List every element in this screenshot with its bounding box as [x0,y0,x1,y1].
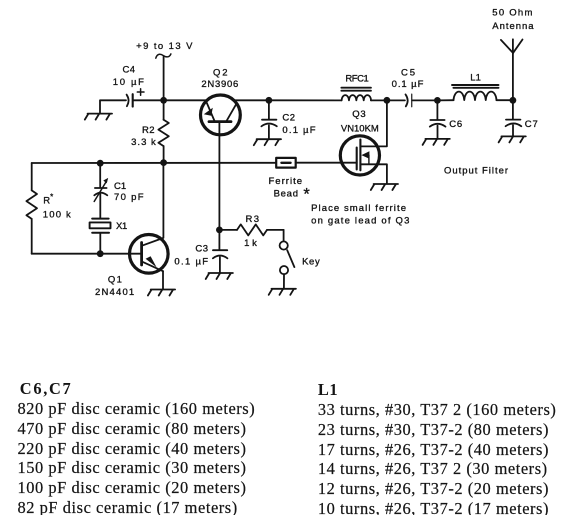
transistor Q1 [130,163,169,289]
node Q3 drain junction [384,97,391,104]
C1 arrow head [103,178,108,184]
resistor R3 [219,224,283,235]
ground (C4) [85,114,112,120]
crystal X1 [90,219,111,254]
svg-text:0.1 µF: 0.1 µF [174,256,208,267]
svg-text:Bead: Bead [274,189,298,200]
svg-text:Q1: Q1 [108,275,122,286]
svg-text:10 µF: 10 µF [113,77,144,88]
wire left drop to R* [31,163,33,190]
svg-text:820 pF disc ceramic (160 meter: 820 pF disc ceramic (160 meters) [18,399,256,418]
node C6 junction [434,97,441,104]
ground (Q3 source) [371,184,398,190]
svg-text:C6,C7: C6,C7 [20,379,72,398]
wire C5 to C6 node [412,99,437,101]
capacitor C6 [430,100,446,138]
svg-text:0.1 µF: 0.1 µF [392,79,424,90]
svg-text:100 k: 100 k [43,210,71,221]
svg-text:10 turns, #26, T37-2 (17 meter: 10 turns, #26, T37-2 (17 meters) [318,499,549,515]
svg-text:C2: C2 [282,113,295,124]
wire RFC1 to C5 [371,99,405,101]
svg-text:+9 to 13 V: +9 to 13 V [136,41,193,52]
svg-text:C4: C4 [123,65,136,76]
svg-text:L1: L1 [318,380,338,399]
node keying junction [216,227,223,234]
ground (C2) [254,139,281,145]
svg-text:2N3906: 2N3906 [201,79,238,90]
antenna [501,39,523,100]
ground (Q1 emitter) [148,290,175,296]
svg-text:2N4401: 2N4401 [95,287,134,298]
svg-text:C6: C6 [449,119,462,130]
transistor Q3 [340,100,387,183]
svg-text:14 turns, #26, T37 2 (30 meter: 14 turns, #26, T37 2 (30 meters) [318,459,548,478]
svg-text:C3: C3 [195,244,208,255]
svg-text:C1: C1 [114,181,126,192]
svg-text:VN10KM: VN10KM [341,124,379,135]
ground (key) [269,289,296,295]
svg-text:*: * [303,186,310,204]
svg-text:L1: L1 [470,73,481,84]
capacitor C1 (variable) [94,163,107,218]
wire C4 ground lead [100,100,126,113]
svg-text:Q2: Q2 [213,68,228,79]
capacitor C3 [213,230,228,273]
svg-text:33 turns, #30, T37 2 (160 mete: 33 turns, #30, T37 2 (160 meters) [318,400,557,419]
svg-text:R2: R2 [142,125,155,136]
wire bottom bus to Q1 base [32,253,142,255]
svg-text:Ferrite: Ferrite [269,176,303,187]
inductor RFC1 [341,88,371,101]
ferrite bead [276,158,296,168]
wire rail to Q2 [164,99,207,101]
wire supply vertical [163,57,165,101]
svg-text:R*: R* [43,192,53,206]
svg-text:17 turns, #26, T37-2 (40 meter: 17 turns, #26, T37-2 (40 meters) [318,440,549,459]
ground (C7) [499,136,526,142]
capacitor C7 [506,100,522,136]
svg-text:C7: C7 [525,119,538,130]
svg-text:Antenna: Antenna [492,21,534,32]
node X1 bottom junction [97,250,104,257]
svg-text:on gate lead of Q3: on gate lead of Q3 [311,216,409,227]
wire C6 node to L1 [437,99,453,101]
wire C2 node to RFC1 [269,99,342,101]
svg-text:100 pF disc ceramic (20 meters: 100 pF disc ceramic (20 meters) [18,478,247,497]
ground (C6) [423,139,450,145]
wire L1 to antenna node [497,99,513,101]
svg-text:Output Filter: Output Filter [444,166,508,177]
svg-text:23 turns, #30, T37-2 (80 meter: 23 turns, #30, T37-2 (80 meters) [318,420,549,439]
wire gate bus y=163 [32,162,277,164]
key switch [280,230,295,289]
svg-text:RFC1: RFC1 [345,74,368,85]
node C1 top junction [97,160,104,167]
svg-text:0.1 µF: 0.1 µF [282,125,315,136]
svg-text:X1: X1 [116,221,127,232]
wire R* bottom [31,219,33,254]
svg-text:R3: R3 [246,214,260,225]
node antenna junction [510,97,517,104]
wire Q2 base lead [218,122,220,230]
wire Q2 collector to C2 node [234,99,269,101]
resistor R2 [158,100,168,162]
svg-text:Q3: Q3 [352,109,365,120]
svg-text:82 pF disc ceramic (17 meters): 82 pF disc ceramic (17 meters) [18,498,238,515]
ground (C3) [206,273,233,279]
capacitor C4 [127,89,144,107]
wire C4 to supply node [134,99,164,101]
inductor L1 [452,85,499,100]
svg-text:70 pF: 70 pF [114,192,144,203]
svg-text:470 pF disc ceramic (80 meters: 470 pF disc ceramic (80 meters) [18,419,247,438]
node R2/Q1 collector junction [160,159,167,166]
svg-text:Place small ferrite: Place small ferrite [311,203,406,214]
svg-text:150 pF disc ceramic (30 meters: 150 pF disc ceramic (30 meters) [18,458,247,477]
node supply junction [160,97,167,104]
svg-text:50 Ohm: 50 Ohm [492,8,532,19]
transistor Q2 [201,95,241,135]
node C2 junction [266,97,273,104]
svg-text:220 pF disc ceramic (40 meters: 220 pF disc ceramic (40 meters) [18,439,247,458]
wire bead to Q3 gate [296,162,357,164]
capacitor C2 [261,100,276,139]
svg-text:Key: Key [302,256,320,267]
svg-text:C5: C5 [401,67,415,78]
svg-text:12 turns, #26, T37-2 (20 meter: 12 turns, #26, T37-2 (20 meters) [318,479,549,498]
capacitor C5 [406,94,412,107]
power terminal squiggle [156,54,171,58]
svg-text:1 k: 1 k [244,238,257,249]
resistor R* [26,190,37,219]
svg-text:3.3 k: 3.3 k [131,137,156,148]
